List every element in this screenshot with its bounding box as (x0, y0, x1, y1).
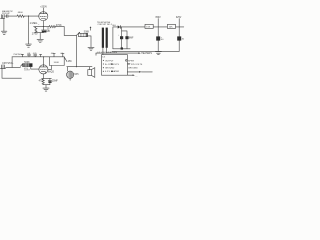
svg-text:PICKUP: PICKUP (2, 13, 10, 15)
svg-text:....: .... (135, 75, 138, 77)
svg-text:6X5: 6X5 (74, 74, 79, 76)
svg-text:6800: 6800 (18, 12, 24, 14)
svg-text:25MF: 25MF (52, 81, 58, 83)
svg-text:325 VOLTS: 325 VOLTS (131, 64, 143, 66)
svg-text:GROUND: GROUND (128, 68, 138, 70)
svg-text:PHONO: PHONO (14, 54, 22, 56)
svg-text:. . . . . . . . . . . . . . .: . . . . . . . . . . . . . . . . . . (101, 79, 123, 81)
svg-text:325V: 325V (176, 17, 182, 19)
svg-text:CONT: CONT (24, 70, 30, 72)
svg-text:350V: 350V (155, 17, 161, 19)
svg-text:25K: 25K (68, 61, 73, 63)
svg-text:1 MEG: 1 MEG (30, 22, 38, 25)
svg-text:GROUND: GROUND (105, 68, 115, 70)
svg-text:2700: 2700 (32, 32, 38, 35)
svg-text:HEATERS: HEATERS (141, 52, 152, 55)
svg-text:SPKR: SPKR (128, 60, 134, 62)
svg-text:6.3 V. HEATER: 6.3 V. HEATER (105, 70, 120, 73)
svg-text:+250V: +250V (40, 7, 47, 9)
svg-text:OUTPUT: OUTPUT (105, 60, 114, 62)
svg-text:470K: 470K (56, 24, 62, 27)
svg-text:500K: 500K (84, 32, 90, 34)
svg-text:15K: 15K (146, 26, 150, 28)
svg-text:8MF: 8MF (129, 37, 134, 39)
svg-text:CIRCUIT NO.1: CIRCUIT NO.1 (98, 24, 113, 26)
svg-text:B+ 325 VOLTS: B+ 325 VOLTS (105, 64, 119, 66)
svg-text:MF: MF (47, 30, 51, 33)
svg-text:CRYSTAL: CRYSTAL (2, 62, 14, 65)
svg-text:10K: 10K (169, 26, 173, 28)
svg-text:500K: 500K (54, 62, 60, 64)
svg-text:500K: 500K (24, 62, 30, 64)
svg-text:6AQ5: 6AQ5 (48, 70, 55, 73)
svg-text:6.3 V. TO HEATERS: 6.3 V. TO HEATERS (97, 51, 117, 54)
